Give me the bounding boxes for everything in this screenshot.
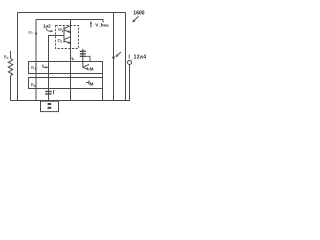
oscillator bar top [48, 103, 52, 105]
transistor M1 collector/emitter [64, 26, 70, 29]
block row1 rectangle [29, 62, 103, 74]
outer frame top edge [18, 12, 126, 14]
svg-text:1600: 1600 [133, 10, 144, 16]
capacitor C1 plates [80, 50, 86, 52]
svg-text:D1: D1 [58, 38, 63, 44]
arrow tick node a [86, 56, 90, 61]
left antenna wire [10, 51, 12, 59]
switch S1 in row1 [42, 65, 44, 68]
inner right bus wire [113, 13, 115, 101]
oscillator bar bottom [48, 107, 52, 109]
svg-text:e1: e1 [28, 29, 33, 35]
gate exit wire to left column [49, 36, 65, 101]
oscillator box [41, 101, 59, 111]
bottom rail wire [11, 100, 130, 102]
arrow tick node b [72, 58, 74, 60]
chain wire from top bus through dashed block to rail [70, 20, 72, 101]
arrowhead on node-e wire [35, 33, 38, 36]
capacitor C1 lead [82, 49, 84, 62]
annotation arrow to node [117, 52, 122, 56]
svg-text:Rb: Rb [31, 82, 36, 88]
transistor M3 in row1 [82, 62, 84, 68]
transistor D1 gate bar [63, 38, 65, 43]
resistor Rs zigzag [8, 59, 12, 76]
outer frame left edge [17, 13, 19, 101]
node dot on right bus [112, 56, 115, 59]
svg-text:M: M [90, 81, 94, 86]
svg-text:G1: G1 [31, 65, 37, 71]
gate bus wire [63, 32, 65, 38]
bias arrow marker [90, 22, 92, 28]
terminal circle [128, 61, 132, 65]
wire vertical drop node e [35, 20, 37, 101]
terminal wire down [129, 65, 131, 101]
top horizontal wire [36, 19, 103, 21]
block row2 rectangle [29, 78, 103, 89]
transistor D1 collector/emitter [64, 37, 70, 40]
wire end stub [102, 20, 104, 23]
figure callout arrow 1600 [134, 16, 139, 21]
svg-text:I_12a4: I_12a4 [129, 55, 147, 61]
transistor M1 gate bar [63, 27, 65, 32]
svg-text:V_bias: V_bias [95, 23, 108, 28]
dashed box 1a01 [56, 26, 79, 49]
svg-text:M1: M1 [58, 27, 64, 33]
svg-text:Rs: Rs [4, 54, 9, 60]
tick M4 in row2 [86, 82, 89, 84]
right edge drop wire [102, 74, 104, 78]
wire below resistor [10, 76, 12, 101]
outer frame right edge [125, 13, 127, 101]
tick label 1 [53, 90, 55, 94]
svg-text:1a2: 1a2 [43, 23, 51, 28]
svg-text:M: M [90, 67, 94, 72]
capacitor C2 plates [45, 91, 51, 93]
leader curve for 1a01 [46, 28, 51, 31]
